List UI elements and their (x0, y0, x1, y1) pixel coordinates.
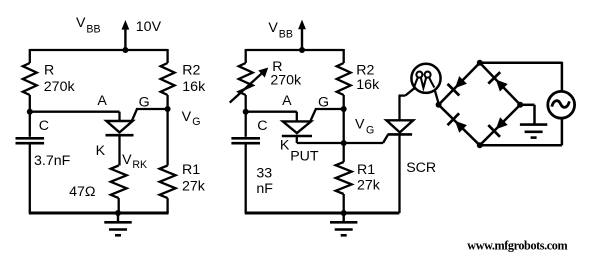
svg-text:K: K (280, 138, 290, 154)
svg-text:16k: 16k (356, 77, 380, 93)
svg-text:V: V (355, 117, 365, 133)
svg-text:270k: 270k (44, 79, 76, 95)
svg-text:nF: nF (256, 181, 273, 197)
svg-text:47Ω: 47Ω (69, 184, 95, 200)
svg-text:V: V (182, 109, 192, 125)
svg-text:RK: RK (132, 159, 147, 171)
svg-text:16k: 16k (182, 79, 206, 95)
svg-text:33: 33 (256, 166, 272, 182)
svg-text:G: G (192, 116, 200, 128)
svg-text:A: A (97, 93, 107, 109)
svg-text:G: G (366, 125, 374, 137)
svg-text:V: V (122, 152, 132, 168)
svg-text:10V: 10V (136, 19, 162, 35)
svg-text:www.mfgrobots.com: www.mfgrobots.com (467, 239, 567, 253)
svg-text:R2: R2 (182, 62, 200, 78)
svg-text:R1: R1 (357, 162, 375, 178)
svg-text:G: G (139, 95, 150, 111)
svg-text:A: A (282, 93, 292, 109)
svg-text:3.7nF: 3.7nF (34, 153, 71, 169)
svg-text:V: V (268, 20, 278, 36)
svg-text:V: V (76, 15, 86, 31)
svg-text:K: K (96, 143, 106, 159)
svg-text:R: R (44, 62, 54, 78)
svg-text:BB: BB (279, 28, 293, 40)
svg-text:27k: 27k (357, 178, 381, 194)
svg-text:G: G (318, 95, 329, 111)
svg-text:R1: R1 (182, 162, 200, 178)
svg-text:C: C (257, 118, 267, 134)
svg-text:C: C (39, 118, 49, 134)
svg-text:270k: 270k (270, 73, 302, 89)
svg-text:PUT: PUT (290, 148, 319, 164)
svg-text:SCR: SCR (406, 160, 436, 176)
svg-text:BB: BB (86, 23, 100, 35)
svg-text:27k: 27k (182, 179, 206, 195)
